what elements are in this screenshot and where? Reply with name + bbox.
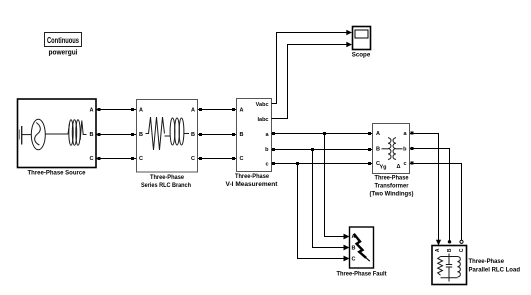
svg-text:A: A xyxy=(139,108,143,114)
wire RLC A to VI A xyxy=(198,108,237,111)
three-phase series RLC branch block xyxy=(137,100,198,190)
branch wire c to fault C xyxy=(298,164,345,259)
svg-text:Scope: Scope xyxy=(352,52,371,59)
svg-text:A: A xyxy=(376,131,380,137)
wire RLC C to VI C xyxy=(198,157,237,160)
svg-text:C: C xyxy=(240,156,244,162)
svg-text:Three-Phase: Three-Phase xyxy=(375,175,409,182)
svg-text:(Two Windings): (Two Windings) xyxy=(370,191,414,198)
transformer winding primary xyxy=(382,138,392,160)
svg-text:B: B xyxy=(139,132,143,138)
svg-text:C: C xyxy=(139,156,143,162)
svg-text:V-I Measurement: V-I Measurement xyxy=(226,181,279,188)
svg-text:Series RLC Branch: Series RLC Branch xyxy=(141,182,191,189)
svg-text:C: C xyxy=(459,248,465,252)
svg-text:B: B xyxy=(376,147,380,153)
svg-text:Parallel RLC Load: Parallel RLC Load xyxy=(469,267,521,274)
powergui block xyxy=(45,33,82,57)
AC source xyxy=(31,119,68,150)
svg-text:Continuous: Continuous xyxy=(47,36,79,45)
svg-text:C: C xyxy=(90,156,94,162)
svg-text:Three-Phase Fault: Three-Phase Fault xyxy=(337,270,388,277)
load resistor xyxy=(438,257,443,276)
svg-text:Three-Phase: Three-Phase xyxy=(469,258,505,265)
svg-text:A: A xyxy=(191,108,195,114)
svg-text:powergui: powergui xyxy=(49,50,78,57)
svg-text:B: B xyxy=(90,132,94,138)
wire source C to RLC C xyxy=(97,157,137,160)
junction node on wire c xyxy=(296,162,299,165)
svg-text:B: B xyxy=(240,132,244,138)
load inductor xyxy=(458,257,461,278)
wire RLC B to VI B xyxy=(198,133,237,136)
scope block xyxy=(352,27,371,59)
wire transformer c to load C xyxy=(410,162,463,244)
three-phase source block xyxy=(18,99,97,176)
svg-text:B: B xyxy=(352,246,356,252)
three-phase fault block xyxy=(337,227,388,277)
lightning bolt xyxy=(354,234,366,258)
wire VI b to transformer B xyxy=(272,148,373,151)
three-phase transformer block xyxy=(370,124,414,198)
svg-text:Vabc: Vabc xyxy=(256,102,269,108)
svg-text:A: A xyxy=(90,108,94,114)
three-phase V-I measurement block xyxy=(226,99,279,188)
svg-text:B: B xyxy=(191,132,195,138)
wire Vabc to scope input 1 xyxy=(272,30,353,104)
svg-text:Three-Phase: Three-Phase xyxy=(150,174,184,181)
svg-text:C: C xyxy=(352,257,356,263)
svg-text:c: c xyxy=(265,162,268,168)
load RLC icon xyxy=(438,254,461,282)
RLC icon inductor coil xyxy=(165,118,190,145)
three-phase parallel RLC load block xyxy=(432,246,520,285)
source coil xyxy=(68,120,87,146)
RLC icon resistor zigzag xyxy=(146,117,165,150)
svg-text:Three-Phase: Three-Phase xyxy=(235,173,269,180)
branch wire b to fault B xyxy=(313,150,345,248)
junction node on wire b xyxy=(311,148,314,151)
svg-text:B: B xyxy=(447,248,453,252)
ground xyxy=(19,126,31,145)
wire VI c to transformer C xyxy=(272,162,373,165)
branch wire a to fault A xyxy=(325,134,345,237)
svg-text:Δ: Δ xyxy=(397,164,401,170)
wire transformer a to load A xyxy=(410,132,441,246)
wire Iabc to scope input 2 xyxy=(272,42,353,119)
wire source A to RLC A xyxy=(97,108,137,111)
svg-text:A: A xyxy=(240,108,244,114)
svg-text:A: A xyxy=(435,248,441,252)
svg-text:Three-Phase Source: Three-Phase Source xyxy=(28,169,86,176)
load capacitor xyxy=(448,257,450,265)
wire VI a to transformer A xyxy=(272,132,373,135)
transformer winding secondary xyxy=(393,138,403,160)
wire transformer b to load B xyxy=(410,147,451,244)
svg-text:C: C xyxy=(191,156,195,162)
junction node on wire a xyxy=(323,132,326,135)
wire source B to RLC B xyxy=(97,133,137,136)
svg-text:Transformer: Transformer xyxy=(375,183,409,190)
svg-text:Iabc: Iabc xyxy=(257,117,268,123)
svg-text:c: c xyxy=(403,161,406,167)
svg-text:Yg: Yg xyxy=(380,165,387,171)
